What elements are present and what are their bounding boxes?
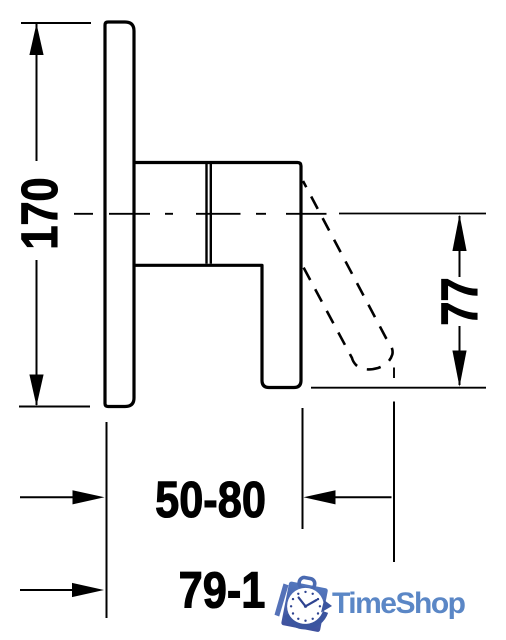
centerline dash-dot [74,213,327,215]
logo clock ticks [290,591,321,622]
dimension 77: bottom reference line [311,387,486,389]
logo clock face [287,588,324,625]
dimension 77: arrow up [452,215,466,252]
dimension 170: arrow down [29,375,43,407]
svg-text:TimeShop: TimeShop [332,587,466,620]
escutcheon plate (side view) [105,22,134,407]
dashed projection at handle tip [393,368,395,379]
dimension 50-80: right arrow line [335,496,392,498]
dimension 170: arrow up [29,24,43,56]
dimension 50-80: left arrow line [20,496,74,498]
logo stripe [275,584,289,617]
dimension 50-80: right extension line [302,408,304,529]
extension line at dashed handle tip [393,402,395,563]
joint line right [210,164,212,264]
dimension 170: top extension line [21,22,91,24]
dimension 79-1: arrow line [20,589,74,591]
logo clock hands [299,598,317,607]
logo bag handle [298,577,315,591]
logo bag [281,575,330,633]
dimension 77: arrow down [452,351,466,387]
svg-text:79-1: 79-1 [179,562,266,619]
dimension 170: bottom extension line [19,406,90,408]
dashed handle (rotated position) [303,181,393,369]
logo swoosh arrowhead [321,600,332,613]
dimension 170: dimension line [36,24,38,161]
svg-text:50-80: 50-80 [155,472,266,529]
dimension 50-80: left extension line [106,422,108,618]
TimeShop logo [275,575,466,633]
valve body and handle outline [134,163,301,388]
joint line left [205,164,207,264]
svg-text:77: 77 [432,277,489,325]
dimension 77: dimension line [459,216,461,277]
logo swoosh [286,612,326,627]
dimension 77: top extension line (centerline extension) [339,213,486,215]
svg-text:170: 170 [12,177,69,249]
